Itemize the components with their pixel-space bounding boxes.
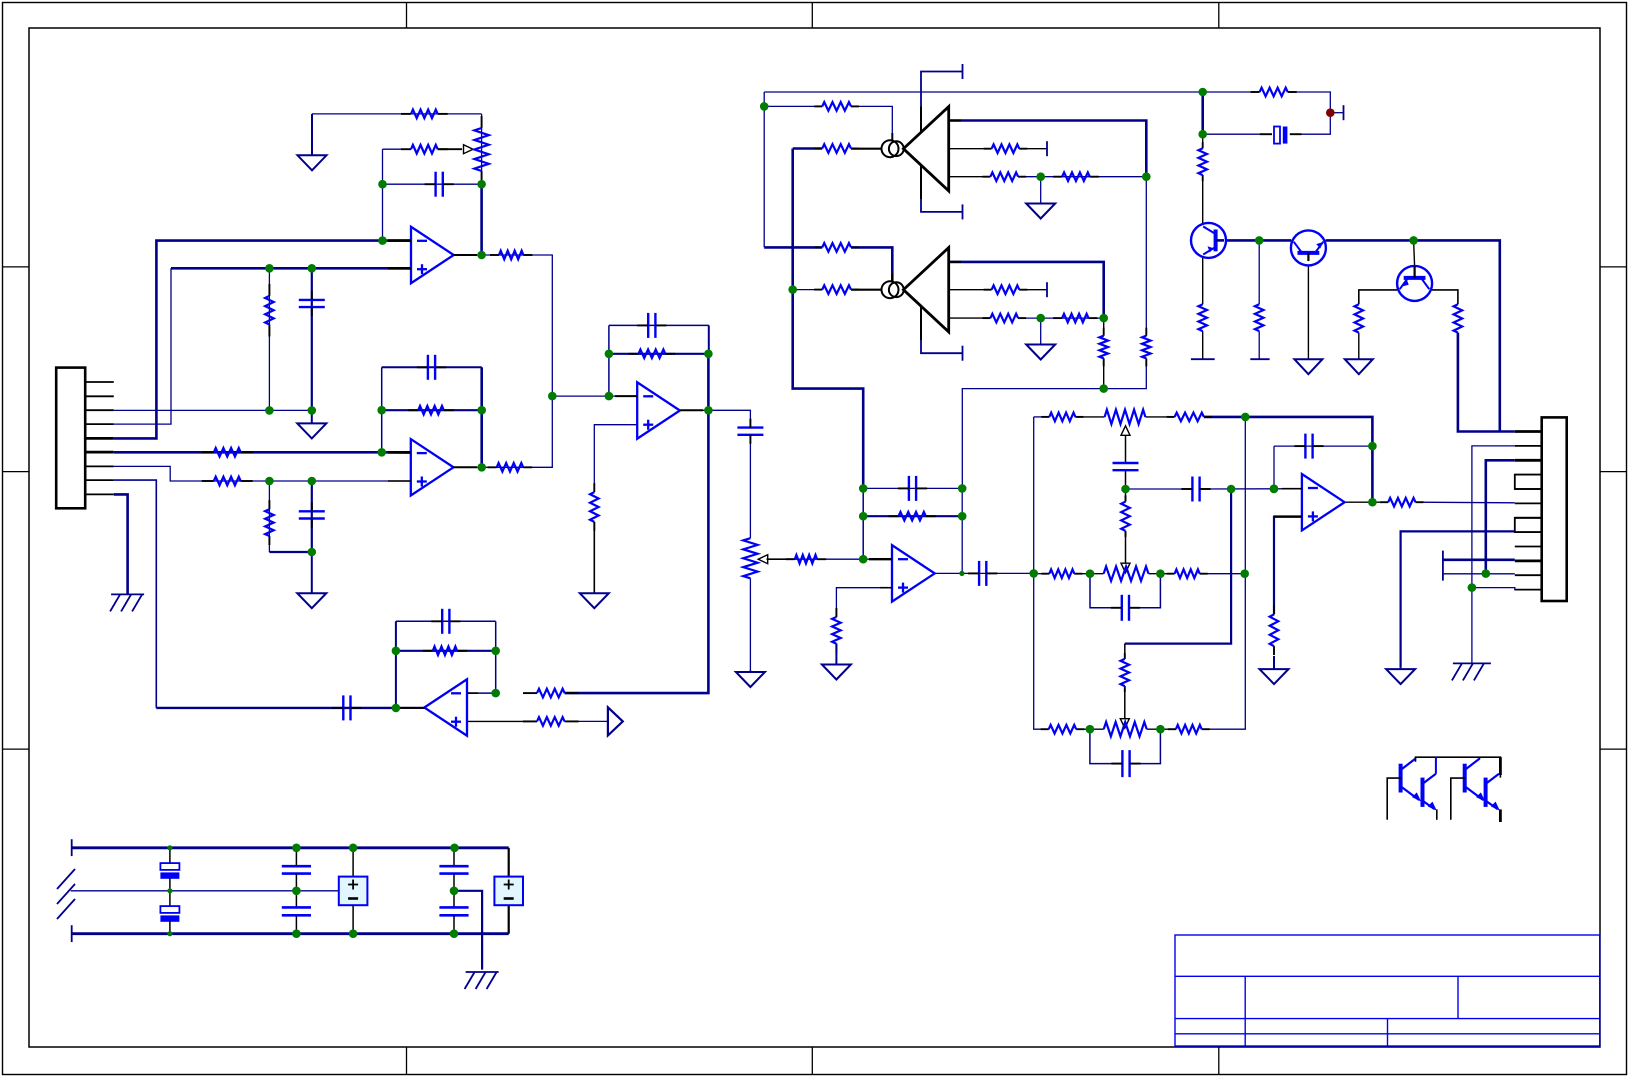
resistor R19 — [1167, 413, 1212, 422]
wire C3 row — [382, 366, 482, 368]
battery B2 — [494, 877, 523, 906]
resistor comp1 chain down — [1142, 328, 1151, 367]
ground comp1 chain — [1026, 204, 1055, 219]
border tick right — [1600, 471, 1627, 473]
junction — [450, 929, 459, 938]
wire fb row to U5 — [962, 389, 1103, 489]
transistor Q5 darlington — [1423, 774, 1437, 811]
T-bar comp2 vee — [962, 346, 964, 361]
wire row2 m2 — [1149, 573, 1175, 575]
junction — [477, 463, 486, 472]
wire wiper1 chain2 — [1125, 469, 1127, 501]
wire comp1 outC — [949, 176, 991, 178]
wire R11 to gnd — [593, 522, 595, 593]
lead U6 - black — [1282, 488, 1302, 490]
resistor R46 — [1454, 304, 1463, 332]
wire osc corner — [763, 92, 765, 247]
wire U4 + to port — [565, 720, 608, 722]
resistor R7 output — [488, 463, 533, 472]
resistor comp1 outC — [982, 172, 1026, 181]
wire wiper1 chain3 — [1125, 531, 1127, 563]
junction — [1409, 236, 1418, 245]
wire U2 output — [453, 396, 552, 467]
wire xtal bottom row — [1203, 133, 1260, 135]
wire comp2 outC — [949, 317, 991, 319]
wire C15 row — [1274, 445, 1372, 447]
comparator A1 vee lead — [920, 165, 922, 199]
wire U1 noninverting input — [171, 267, 411, 270]
capacitor C3 feedback — [417, 355, 446, 380]
potentiometer P4 — [743, 538, 757, 578]
junction — [450, 887, 459, 896]
capacitor C2 — [425, 172, 454, 197]
resistor comp1 in — [814, 144, 859, 153]
transistor Q2 — [1291, 230, 1326, 265]
junction — [265, 406, 274, 415]
junction — [1468, 583, 1477, 592]
ground J2 pin8 — [1386, 668, 1415, 684]
wire comp1 vcc pin — [921, 72, 963, 126]
capacitor C6 feedback — [637, 313, 666, 338]
resistor comp1 bubble feed — [814, 102, 859, 111]
resistor R12 — [786, 555, 826, 564]
border tick top — [811, 3, 813, 29]
wire comp2 feed row — [764, 246, 822, 249]
comparator A2 bubble top lead — [891, 274, 893, 282]
junction — [450, 844, 459, 853]
potentiometer P4 wiper arrow — [758, 555, 768, 564]
wire U4 out coupling — [156, 707, 396, 709]
wire xtal right corner — [1288, 92, 1331, 134]
capacitor C11 — [1113, 463, 1139, 470]
junction — [491, 689, 500, 698]
wire row3 m1 — [1076, 728, 1104, 730]
connector J1 pin 1 — [85, 381, 114, 383]
connector J2 pin 10 — [1515, 560, 1542, 563]
wire B2 bottom lead — [508, 905, 510, 934]
wire comp2 input row — [793, 289, 823, 291]
resistor R23 — [1167, 569, 1208, 578]
wire left column x1033 — [1034, 417, 1049, 729]
wire U3 out down to R13 — [565, 410, 709, 693]
junction — [292, 929, 301, 938]
wire pin9 to chassis — [114, 494, 128, 594]
wire C below +in — [311, 268, 313, 410]
connector J2 pin 1 — [1515, 430, 1542, 433]
junction — [377, 406, 386, 415]
op-amp U1 — [411, 227, 454, 283]
junction — [548, 392, 557, 401]
junction small — [959, 571, 964, 576]
wire Q3 left leg — [1359, 290, 1398, 304]
junction — [308, 264, 317, 273]
lead U1 out black — [454, 254, 477, 256]
junction — [1198, 88, 1207, 97]
wire xtal top row — [1203, 91, 1260, 93]
resistor R13 — [523, 689, 579, 698]
comparator A2 vee lead — [920, 306, 922, 340]
junction — [378, 180, 387, 189]
wire darlington collectors — [1416, 757, 1501, 777]
wire comp2 outA — [949, 262, 1104, 318]
wire row1 right — [1204, 416, 1245, 419]
border tick bottom — [811, 1047, 813, 1075]
potentiometer R3 — [474, 116, 488, 183]
junction — [1121, 485, 1130, 494]
wire U5 output — [935, 572, 1034, 574]
rail +V terminal — [71, 839, 73, 856]
junction — [605, 350, 614, 359]
ground below Q2 — [1294, 359, 1322, 374]
wire comp2 outB tbar — [1019, 289, 1047, 291]
wire R9/C4 join — [269, 551, 311, 553]
wire pin7 jog — [114, 466, 411, 481]
potentiometer P6 — [1104, 567, 1149, 581]
junction — [1270, 485, 1279, 494]
ground bar below R43 — [1191, 358, 1215, 360]
rail -V — [72, 932, 509, 935]
wire Q2 to Q3 node — [1326, 239, 1414, 242]
wire U4 - input — [467, 692, 496, 694]
wire gnd drop comp1 — [1040, 177, 1042, 204]
wire U4 output lead — [396, 707, 425, 709]
border tick top — [1218, 3, 1220, 29]
connector J1 pin 5 — [85, 437, 114, 440]
capacitor C13 — [1111, 595, 1140, 621]
junction — [491, 647, 500, 656]
border tick right — [1600, 748, 1627, 750]
wire osc top — [764, 91, 1202, 93]
wire C14 bridge r — [1130, 729, 1161, 763]
capacitor C16 polarized — [160, 848, 179, 891]
lead U2 out black — [453, 466, 477, 468]
wire R2 row — [383, 148, 412, 150]
wire U2 inverting input — [114, 451, 411, 454]
lead U6 + black — [1274, 515, 1302, 517]
wire U2 fb right column — [480, 367, 483, 467]
wire U2 fb left column — [381, 367, 383, 452]
resistor comp1 outB — [984, 144, 1028, 153]
wire R9 leg — [268, 481, 270, 552]
connector J2 pin 7 — [1515, 517, 1542, 519]
wire wiper3 chain — [1124, 644, 1126, 659]
border tick bottom — [406, 1047, 408, 1075]
resistor R45 — [1355, 304, 1364, 332]
resistor R27 output — [1380, 498, 1423, 507]
comparator A1 outA lead — [949, 119, 961, 121]
connector J2 pin 3 — [1515, 459, 1542, 462]
lead U2 + black — [388, 480, 411, 482]
capacitor C18 — [282, 848, 311, 891]
resistor R14 feedback — [423, 647, 467, 656]
border tick right — [1600, 266, 1627, 268]
resistor R44 — [1255, 304, 1264, 331]
wire pin3 to RC bottom — [114, 409, 312, 411]
T-bar J2 stub — [1442, 551, 1444, 581]
junction — [1270, 484, 1279, 493]
wire C7 to P4 — [749, 434, 751, 538]
wire J2 pin8 gnd — [1401, 531, 1515, 667]
junction — [859, 555, 868, 564]
connector J1 — [56, 368, 85, 509]
capacitor C8 feedback — [431, 609, 460, 634]
resistor comp2 in — [814, 285, 859, 294]
junction — [477, 180, 486, 189]
junction — [1227, 485, 1236, 494]
connector J2 pin 6 — [1515, 502, 1542, 504]
T-bar comp2 outB — [1046, 282, 1048, 297]
wire comp2 chain down2 — [1103, 358, 1105, 388]
wire C2 row — [383, 183, 482, 185]
wire U1 inverting input — [114, 241, 411, 439]
lead U4 - black — [467, 692, 478, 694]
junction — [377, 448, 386, 457]
wire U5 - column — [862, 488, 864, 559]
wire comp1 bubble feed — [764, 105, 822, 107]
connector J2 pin 12 — [1515, 589, 1542, 591]
resistor comp1 chain2 — [1053, 172, 1099, 181]
comparator A1 vcc lead — [920, 107, 922, 133]
wire comp1 input row — [793, 147, 823, 150]
wire comp1 vee pin — [921, 172, 963, 212]
wire J2 pin3 column — [1486, 460, 1515, 573]
wire row1 mid2 — [1145, 416, 1174, 418]
wire comp1 outB — [949, 148, 992, 150]
wire C13 bridge r — [1129, 574, 1161, 608]
comparator A1 input lead — [851, 148, 882, 150]
junction — [1036, 172, 1045, 181]
junction small — [167, 888, 172, 893]
wire R42 to Q1 — [1202, 134, 1204, 148]
T-bar comp1 outB — [1046, 141, 1048, 156]
resistor R18 — [1041, 413, 1083, 422]
wire row2 m1 — [1074, 573, 1103, 575]
resistor R21 — [1121, 653, 1130, 692]
port arrow at U4 + — [608, 707, 623, 735]
transistor Q4 darlington — [1401, 757, 1422, 801]
junction — [1156, 569, 1165, 578]
junction small — [167, 931, 172, 936]
wire pin8 down — [114, 480, 157, 708]
junction — [1086, 569, 1095, 578]
capacitor C10 output — [968, 561, 997, 586]
rail +V — [72, 846, 509, 849]
connector J2 pin 11 — [1515, 574, 1542, 576]
wire C12 to U6 - — [1199, 488, 1302, 490]
wire 0V to chassis — [454, 891, 482, 970]
transistor Q1 — [1191, 223, 1226, 258]
wire wiper3 chain2 — [1124, 686, 1126, 719]
junction — [292, 887, 301, 896]
connector J1 pin 6 — [85, 451, 114, 454]
junction — [349, 844, 358, 853]
junction — [859, 484, 868, 493]
junction — [1198, 130, 1207, 139]
wire row2 left — [1034, 573, 1050, 575]
wire U4 fb left column — [395, 621, 397, 708]
transistor Q7 darlington — [1486, 774, 1500, 811]
wire U6 output — [1345, 501, 1388, 503]
junction — [1099, 314, 1108, 323]
wire row3 m2 — [1147, 728, 1176, 730]
junction — [265, 264, 274, 273]
wire R43 to gnd bar — [1202, 331, 1204, 359]
wire comp2 outB — [949, 289, 992, 291]
comparator A2 input lead — [851, 289, 882, 291]
op-amp U5 — [892, 545, 935, 601]
ground comp2 chain — [1026, 345, 1055, 360]
potentiometer P7 wiper arrow — [1120, 719, 1129, 729]
wire Q3 base leg — [1414, 240, 1415, 266]
wire row2 right — [1200, 573, 1246, 575]
wire row1 to U6 fb — [1245, 417, 1372, 502]
resistor comp2 outC — [982, 314, 1026, 323]
junction — [308, 548, 317, 557]
border tick left — [3, 266, 30, 268]
ground below P4 — [736, 670, 765, 687]
resistor R6 feedback — [408, 406, 454, 415]
comparator A1 bubble top lead — [891, 133, 893, 141]
title block — [1175, 935, 1600, 1046]
border tick bottom — [1218, 1047, 1220, 1075]
capacitor C4 — [299, 502, 325, 527]
junction — [1036, 314, 1045, 323]
lead U1 + black — [388, 267, 411, 270]
wire xtal node column — [1201, 92, 1204, 134]
resistor R below U1 +in — [265, 284, 274, 337]
lead U3 out black — [680, 409, 703, 411]
junction — [392, 704, 401, 713]
wire comp2 bubble drop — [851, 247, 892, 281]
resistor R11 — [590, 483, 599, 531]
wire U6 - column — [1273, 446, 1275, 489]
wire pot R3 column — [481, 114, 483, 184]
junction dark red osc — [1326, 108, 1335, 117]
resistor comp2 feed — [814, 243, 859, 252]
connector J1 pin 4 — [85, 423, 114, 425]
wire node to J2 pin1 — [1414, 240, 1500, 431]
resistor R20 — [1121, 496, 1130, 537]
wire comp1 chain down — [1145, 177, 1147, 336]
junction — [1368, 442, 1377, 451]
wire B2 top lead — [508, 848, 510, 877]
wire J2 pin78 loop — [1515, 518, 1542, 532]
potentiometer P5 — [1105, 410, 1146, 424]
wire comp2 vee pin — [921, 313, 963, 353]
junction — [605, 392, 614, 401]
wire Q7 emitter stub — [1499, 809, 1502, 822]
junction — [292, 844, 301, 853]
wire Q1 emitter leg — [1202, 256, 1204, 304]
connector J2 pin 8 — [1515, 531, 1542, 533]
junction — [704, 406, 713, 415]
resistor R16 feedback — [889, 512, 936, 521]
wire tbar to pin11 — [1443, 573, 1515, 575]
connector J2 pin 2 — [1515, 445, 1542, 447]
wire R46 down to J2 pin1 — [1458, 333, 1515, 432]
junction — [1255, 236, 1264, 245]
op-amp U6 — [1302, 474, 1345, 530]
wire tbar to pin10 — [1443, 558, 1515, 561]
capacitor C19 — [282, 891, 311, 934]
resistor R15 — [523, 717, 579, 726]
connector J1 pin 8 — [85, 479, 114, 481]
junction — [308, 406, 317, 415]
junction — [1368, 498, 1377, 507]
wire gnd drop comp2 — [1040, 318, 1042, 344]
resistor R2 — [401, 145, 448, 154]
resistor R22 — [1041, 569, 1082, 578]
wire R1 row — [312, 113, 482, 115]
ground bar below R44 — [1250, 358, 1269, 360]
resistor R9 — [265, 500, 274, 545]
earth symbol rail left — [57, 869, 75, 919]
T-bar osc — [1343, 105, 1345, 120]
junction — [1029, 569, 1038, 578]
junction — [1156, 725, 1165, 734]
resistor R5 input — [202, 448, 253, 457]
wire Q5 collector — [1435, 757, 1437, 774]
wire U4 + input — [467, 720, 537, 722]
wire Q1 base lead — [1202, 175, 1204, 224]
junction — [1240, 569, 1249, 578]
wire R14 row — [396, 650, 496, 652]
wire wiper1 chain — [1125, 427, 1127, 464]
capacitor C9 feedback — [898, 476, 927, 501]
junction — [859, 512, 868, 521]
wire C6 row — [609, 324, 709, 326]
wire C12 row — [1126, 488, 1194, 490]
ground below U1 input RC — [297, 410, 326, 438]
resistor comp2 outB — [984, 285, 1028, 294]
resistor R42 — [1198, 142, 1207, 181]
chassis ground J1 — [110, 594, 144, 611]
wire comp1 bubble drop — [851, 106, 892, 140]
ground below R26 — [1260, 656, 1289, 684]
junction — [1086, 725, 1095, 734]
resistor R17 — [832, 608, 841, 653]
chassis ground J2 — [1452, 663, 1491, 680]
capacitor C5 coupling — [332, 695, 361, 720]
lead U5 - black — [869, 558, 892, 560]
wire darlington right thick — [1499, 757, 1502, 775]
lead U5 + black — [880, 587, 892, 589]
rail 0V — [71, 890, 340, 892]
ground below R45 — [1345, 359, 1373, 374]
wire Q3 right leg — [1432, 290, 1458, 304]
junction — [477, 406, 486, 415]
border tick left — [3, 471, 30, 473]
capacitor C14 — [1111, 750, 1140, 777]
wire comp chain corner — [1104, 358, 1147, 388]
op-amp U4 — [424, 679, 467, 735]
wire P4 to gnd — [749, 578, 751, 670]
wire U6 out to J2 pin6 — [1416, 501, 1515, 504]
connector J2 pin 5 — [1515, 488, 1542, 490]
wire Q5 emitter stub — [1436, 809, 1438, 819]
wire wiper to R12 black — [767, 558, 795, 560]
connector J2 pin 4 — [1515, 474, 1542, 476]
capacitor C17 polarized — [160, 891, 179, 934]
wire comp2 chain — [1018, 317, 1104, 319]
ground below U2 input RC — [297, 552, 326, 608]
capacitor C below U1 +in — [299, 291, 325, 316]
wire U5 + input — [836, 588, 892, 617]
wire right column x1245 — [1202, 417, 1246, 729]
resistor R43 — [1198, 304, 1207, 331]
resistor R25 — [1168, 725, 1210, 734]
wire R2 to wiper — [438, 148, 462, 150]
